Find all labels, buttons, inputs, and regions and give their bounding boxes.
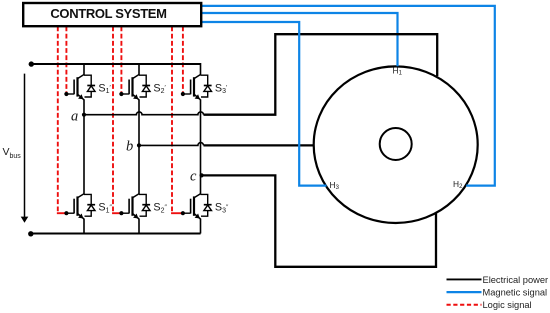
wire: S1&apos;&apos; emitter to -rail [83, 219, 85, 234]
svg-text:c: c [190, 168, 197, 184]
node b [137, 143, 141, 147]
motor M1 (BLDC) outer stator ellipse [314, 66, 478, 223]
svg-text:a: a [71, 108, 78, 124]
wire: logic signal to gate of S3&apos;&apos; (lower) [171, 27, 173, 213]
junction dot: positive rail input [29, 61, 34, 66]
wire: S2&apos;&apos; emitter to -rail [138, 219, 140, 234]
wire: S3&apos; emitter to node c [200, 99, 202, 175]
wire: logic signal to gate of S1&apos; (upper) [65, 27, 67, 93]
legend: magnetic signal [447, 288, 548, 298]
wire: logic signal to gate of S2&apos;&apos; (lower) [112, 27, 114, 213]
svg-text:S3′: S3′ [215, 82, 228, 95]
wire: node b to S2&apos;&apos; collector [138, 145, 140, 194]
Vbus reference arrow [24, 74, 26, 218]
wire: phase b to motor left [204, 144, 314, 146]
wire: phase a run up and over to motor top [204, 34, 438, 115]
svg-text:b: b [126, 138, 133, 154]
wire: S2&apos; collector to +rail [138, 63, 140, 75]
transistor S1'' [64, 194, 95, 219]
svg-text:S3″: S3″ [215, 202, 229, 215]
wire: node c to S3&apos;&apos; collector [200, 175, 202, 194]
wire: magnetic signal H2 to control system [202, 6, 495, 186]
transistor S3'' [181, 194, 212, 219]
wire: magnetic signal H1 to control system [202, 13, 398, 66]
transistor S3' [181, 75, 212, 100]
svg-text:S2″: S2″ [153, 202, 167, 215]
wire: S2&apos; emitter to node b [138, 99, 140, 145]
wire: phase b from node b (hops over leg 3) [139, 143, 204, 146]
svg-text:CONTROL SYSTEM: CONTROL SYSTEM [50, 6, 166, 21]
wire: node a to S1&apos;&apos; collector [83, 115, 85, 194]
node c [200, 173, 204, 177]
svg-text:Vbus: Vbus [3, 146, 22, 160]
legend: electrical power [447, 275, 549, 285]
transistor S2'' [119, 194, 150, 219]
svg-text:S2′: S2′ [153, 82, 166, 95]
svg-text:S1′: S1′ [98, 82, 111, 95]
junction dot: negative rail input [28, 231, 33, 236]
wire: phase c run down and under to motor bottom [202, 175, 436, 266]
wire: S1&apos; collector to +rail [83, 63, 85, 75]
wire: logic signal to gate of S1&apos;&apos; (lower) [57, 27, 59, 213]
wire: positive DC rail [31, 63, 201, 65]
wire: magnetic signal H3 to control system [202, 22, 327, 186]
svg-text:S1″: S1″ [98, 202, 112, 215]
node a [82, 113, 86, 117]
wire: S3&apos;&apos; emitter to -rail [200, 219, 202, 234]
transistor S1' [64, 75, 95, 100]
svg-text:Electrical power: Electrical power [483, 275, 549, 285]
wire: S1&apos; emitter to node a [83, 99, 85, 114]
motor M1 rotor shaft inner circle [380, 128, 412, 160]
wire: phase a from node a (hops over legs 2,3) [84, 112, 204, 115]
svg-text:Logic signal: Logic signal [483, 300, 532, 310]
wire: logic signal to gate of S3&apos; (upper) [182, 27, 184, 93]
wire: logic signal to gate of S2&apos; (upper) [120, 27, 122, 93]
legend: logic signal [447, 300, 532, 310]
svg-text:Magnetic signal: Magnetic signal [483, 288, 548, 298]
transistor S2' [119, 75, 150, 100]
wire: negative DC rail [31, 233, 201, 235]
wire: S3&apos; collector to +rail [200, 63, 202, 75]
control system U1 [23, 3, 201, 26]
